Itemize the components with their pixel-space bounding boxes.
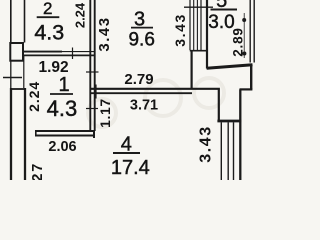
svg-text:1.92: 1.92 [39, 59, 69, 76]
room2 bottom wall bottom line [24, 54, 95, 56]
right outer wall line 1 [249, 0, 251, 63]
middle horizontal wall bottom line [90, 92, 192, 94]
tick on left wall [3, 77, 22, 79]
thick wall right vertical [250, 65, 252, 90]
wall pier rectangle left [10, 43, 23, 61]
thick wall left vertical of step [218, 90, 220, 122]
svg-text:1.17: 1.17 [97, 98, 113, 128]
svg-text:9.6: 9.6 [128, 30, 154, 51]
svg-text:2.24: 2.24 [72, 2, 87, 28]
svg-text:3.43: 3.43 [198, 125, 215, 163]
svg-text:3.43: 3.43 [172, 13, 188, 47]
room1 bottom wall top line [36, 130, 95, 132]
thick wall step horizontal [240, 88, 253, 90]
room1 bottom wall bottom line [36, 135, 95, 137]
thick wall bottom cap over window [217, 120, 241, 123]
dimension line for 2.89 [243, 13, 245, 58]
svg-text:17.4: 17.4 [111, 157, 150, 179]
svg-text:3.71: 3.71 [130, 98, 158, 114]
tick on central wall lower [86, 108, 98, 110]
svg-text:27: 27 [30, 162, 46, 180]
hatch window line 4 [200, 0, 202, 50]
hatch window thick right line [206, 0, 208, 69]
hatch window line 3 [196, 0, 198, 50]
thick wall room5 bottom [207, 65, 253, 68]
dimension dot upper [242, 18, 246, 22]
room2 bottom wall top line thick part [24, 51, 63, 53]
thick lower-left wall inner line [24, 88, 26, 180]
wall: left inner vertical line upper [24, 0, 26, 43]
hatch window line 1 [189, 0, 191, 50]
svg-text:2.89: 2.89 [231, 27, 246, 56]
thick lower-left wall outer line [10, 88, 12, 180]
hatch window line 2 [193, 0, 195, 50]
wall: left outer vertical line upper [10, 0, 12, 43]
svg-text:2.79: 2.79 [124, 71, 153, 88]
room1 bottom wall right hook [93, 130, 95, 138]
tick on middle wall left end [95, 85, 97, 99]
svg-text:1: 1 [58, 74, 69, 96]
paper background [0, 0, 270, 180]
central vertical wall right line [94, 0, 96, 131]
bottom-right window line 1 [220, 122, 222, 180]
svg-text:2.06: 2.06 [48, 139, 76, 155]
middle horizontal wall top line [90, 88, 220, 90]
right outer wall line 2 [253, 0, 255, 63]
hatch window bottom cap [190, 50, 207, 52]
thick wall step vertical going down to bottom [239, 89, 241, 180]
bottom-right window line 2 [227, 122, 229, 180]
svg-text:2.24: 2.24 [26, 81, 42, 112]
svg-text:3.43: 3.43 [96, 16, 113, 51]
tick on room2 bottom wall [72, 48, 74, 60]
tick on central wall upper [86, 71, 99, 73]
floor plan scan 270x180 [0, 0, 270, 180]
room1 left wall thin [23, 56, 25, 89]
room1 bottom wall left cap [35, 130, 37, 137]
room2 bottom wall top line thin part [62, 51, 95, 53]
dimension dot lower [242, 52, 246, 56]
vertical wall under hatch window [191, 51, 193, 90]
faint watermark blobs [88, 78, 224, 127]
bottom-right window line 3 [233, 122, 235, 180]
thick lower-left wall top cap [10, 88, 26, 90]
svg-text:2: 2 [43, 0, 52, 18]
central vertical wall left line [89, 0, 91, 131]
left wall thin segment below pier [10, 61, 12, 88]
hatch window horizontal tick [184, 6, 213, 8]
svg-text:4.3: 4.3 [47, 96, 78, 121]
svg-text:4.3: 4.3 [34, 21, 64, 45]
